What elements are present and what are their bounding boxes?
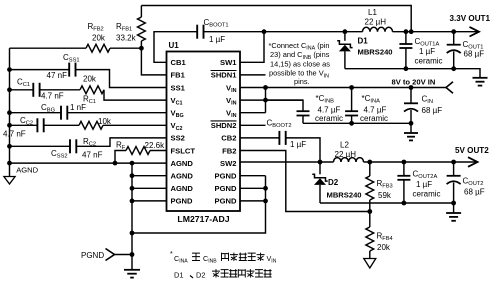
pin label FB2 right 8 — [222, 146, 236, 155]
terminal 5V OUT2 — [454, 157, 478, 167]
pin label SHDN1 right 2 — [211, 71, 238, 80]
svg-text:22.6k: 22.6k — [145, 141, 166, 150]
node agnd2 — [130, 173, 135, 178]
node cout1-top — [451, 29, 456, 34]
capacitor COUT1A — [399, 32, 412, 69]
svg-text:PGND: PGND — [215, 197, 237, 206]
svg-text:22 µH: 22 µH — [335, 150, 357, 159]
capacitor COUT2 — [447, 162, 461, 203]
wire FB1 to pin — [141, 48, 166, 75]
pin label SHDN2 right 6 — [211, 121, 237, 130]
label CBG — [41, 103, 55, 114]
svg-text:14,15) as close as: 14,15) as close as — [270, 59, 330, 68]
svg-text:1 µF: 1 µF — [290, 140, 306, 149]
wire PGND pin left — [132, 200, 167, 202]
label RFB2 — [88, 22, 104, 33]
pin label SS2 left 7 — [171, 134, 185, 143]
svg-text:pins.: pins. — [294, 77, 310, 86]
svg-text:SW2: SW2 — [220, 159, 236, 168]
svg-text:CB2: CB2 — [221, 134, 236, 143]
label AGND — [16, 165, 38, 174]
wire VIN rail — [265, 88, 267, 113]
wire RC2 to VC2 — [103, 124, 167, 126]
node CBG-rail — [7, 110, 12, 115]
wire CSS2 row — [10, 145, 71, 147]
wire CB2 stub — [240, 137, 279, 139]
wire SW1 row — [264, 31, 363, 33]
capacitor CINA — [345, 88, 358, 124]
inductor L1 — [363, 27, 393, 31]
wire SHDN2 stub — [240, 124, 266, 126]
wire CSS1 to SS1 — [76, 70, 167, 88]
wire SW2 row — [240, 161, 334, 163]
pin label VC1 left 4 — [171, 96, 183, 107]
svg-text:20k: 20k — [92, 34, 106, 43]
svg-text:SW1: SW1 — [220, 58, 237, 67]
svg-text:FB2: FB2 — [222, 146, 236, 155]
svg-text:SS2: SS2 — [171, 134, 185, 143]
pin label PGND right 12 — [215, 197, 237, 206]
label COUT2A — [413, 170, 438, 181]
pin label FSLCT left 8 — [171, 146, 196, 155]
label CC1 — [17, 78, 30, 89]
svg-text:ceramic: ceramic — [413, 190, 441, 199]
node pgnd-term — [130, 252, 135, 257]
diode D1 — [337, 32, 352, 69]
ground AGND symbol — [4, 163, 15, 184]
capacitor CINB — [266, 100, 310, 123]
svg-text:LM2717-ADJ: LM2717-ADJ — [177, 214, 229, 224]
value 47 nF — [47, 71, 68, 80]
svg-text:MBRS240: MBRS240 — [358, 48, 393, 57]
node agnd3 — [130, 186, 135, 191]
ground ch2 symbol — [446, 203, 461, 221]
value 68 uF cin — [422, 106, 443, 115]
inductor L2 — [334, 158, 364, 162]
svg-text:33.2k: 33.2k — [116, 34, 137, 43]
wire PGND1 rail — [345, 69, 480, 78]
label RC1 — [83, 95, 96, 106]
svg-text:20k: 20k — [377, 243, 391, 252]
label CBOOT1 — [204, 18, 229, 29]
value 1 nF — [70, 103, 86, 112]
label ceramic cout2a — [413, 190, 441, 199]
node FB1 junction — [139, 46, 144, 51]
capacitor CBOOT1 — [197, 25, 203, 39]
svg-text:D1: D1 — [358, 37, 369, 46]
node rfb3-top — [367, 160, 372, 165]
capacitor CIN — [404, 88, 418, 124]
svg-text:68 µF: 68 µF — [464, 50, 485, 59]
label PGND — [81, 251, 104, 260]
svg-text:PGND: PGND — [215, 172, 237, 181]
label 8V to 20V IN — [392, 77, 436, 86]
value 1 uF cout2a — [416, 180, 432, 189]
label CSS2 — [51, 149, 68, 160]
node cout1a-gnd — [404, 66, 409, 71]
node cout1-gnd — [451, 66, 456, 71]
wire input cap rail — [303, 122, 411, 124]
resistor RFB3 — [366, 162, 374, 212]
label CC2 — [20, 116, 33, 127]
terminal 8V-20V IN — [446, 82, 453, 94]
wire CC1 row — [10, 89, 34, 91]
wire CBG row — [10, 112, 62, 114]
label MBRS240 d2 — [327, 191, 362, 200]
wire CSS2 to SS2 — [76, 138, 166, 146]
op-amp U1 LM2717-ADJ body — [167, 52, 241, 212]
label ceramic cout1a — [415, 57, 443, 66]
label COUT1 — [463, 40, 484, 51]
pin label FB1 left 2 — [171, 71, 186, 80]
node pgnd-l — [130, 199, 135, 204]
node cin-gnd — [409, 121, 414, 126]
node cout2-gnd — [451, 201, 456, 206]
label ceramic cina — [360, 114, 388, 123]
pin label SS1 left 3 — [171, 83, 186, 92]
label RFB3 — [377, 179, 393, 190]
node fb2-junction — [367, 209, 372, 214]
wire PGND pins right — [240, 176, 266, 201]
wire PGND2 rail — [320, 202, 454, 204]
svg-text:47 nF: 47 nF — [82, 151, 103, 160]
pin label AGND left 10 — [171, 172, 194, 181]
resistor RC1 — [80, 86, 104, 94]
label CINB — [316, 94, 335, 105]
ground RFB4 symbol — [364, 259, 376, 269]
value 4.7 uF cina — [364, 106, 387, 115]
label CSS1 — [63, 53, 80, 64]
svg-text:FSLCT: FSLCT — [171, 146, 196, 155]
svg-text:*: * — [170, 251, 173, 258]
value 47 nF css2 — [82, 151, 103, 160]
value 22 uH l2 — [335, 150, 357, 159]
node cin-top — [409, 85, 414, 90]
node cina-top — [349, 85, 354, 90]
svg-text:L2: L2 — [340, 141, 349, 150]
svg-text:20k: 20k — [83, 75, 97, 84]
pin label VIN right 3 — [226, 83, 237, 94]
wire CSS1 row — [10, 69, 70, 71]
pin label PGND left 12 — [171, 197, 193, 206]
wire RF to FSLCT — [150, 150, 167, 152]
label D1 — [358, 37, 369, 46]
svg-text:L1: L1 — [368, 8, 377, 17]
value 1 uF cboot2 — [290, 140, 306, 149]
wire VIN pin2 — [240, 99, 303, 101]
capacitor CSS1 — [69, 63, 75, 77]
wire VIN row — [240, 87, 446, 89]
svg-text:D2: D2 — [328, 178, 339, 187]
svg-text:ceramic: ceramic — [415, 57, 443, 66]
wire CB1 loop — [154, 32, 197, 63]
node cout2a-top — [402, 160, 407, 165]
value 4.7 nF cc2 — [3, 130, 26, 139]
svg-text:D1: D1 — [174, 271, 183, 280]
wire AGND rail — [9, 48, 11, 163]
label D2 — [328, 178, 339, 187]
capacitor CBG — [61, 106, 67, 120]
label RC2 — [83, 137, 96, 148]
node cout2-top — [451, 160, 456, 165]
wire CBOOT1 to SW1 node — [204, 31, 265, 33]
node D1 — [343, 29, 348, 34]
terminal PGND arrow — [106, 249, 133, 261]
svg-text:PGND: PGND — [171, 197, 193, 206]
wire CC2-RC2 — [44, 124, 79, 126]
note chinese line2 — [174, 269, 272, 279]
label U1 — [169, 41, 180, 50]
svg-text:1 nF: 1 nF — [70, 103, 86, 112]
pin label CB1 left 1 — [171, 58, 187, 67]
diode D2 — [312, 162, 327, 203]
capacitor COUT1 — [447, 32, 461, 69]
svg-text:59k: 59k — [378, 191, 392, 200]
svg-text:FB1: FB1 — [171, 71, 186, 80]
svg-text:AGND: AGND — [171, 172, 194, 181]
label CBOOT2 — [267, 119, 292, 130]
node cina-gnd — [349, 121, 354, 126]
svg-text:AGND: AGND — [171, 184, 194, 193]
wire FB2 drop — [240, 151, 370, 212]
node CC2-rail — [7, 123, 12, 128]
pin label PGND right 11 — [215, 184, 237, 193]
node pgr1 — [263, 186, 268, 191]
wire RF left lead — [115, 151, 126, 164]
label COUT2 — [463, 177, 484, 188]
capacitor CSS2 — [70, 139, 76, 153]
svg-text:47 nF: 47 nF — [47, 71, 68, 80]
wire VIN pin3 — [240, 112, 266, 114]
pin label AGND left 9 — [171, 159, 194, 168]
wire SW1 stub — [240, 32, 264, 63]
node vin2 — [263, 98, 268, 103]
svg-text:SS1: SS1 — [171, 83, 186, 92]
ground PGND symbol — [124, 270, 140, 278]
wire AGND2 pin — [132, 175, 167, 177]
wire PGND rail left — [131, 163, 133, 270]
label LM2717-ADJ — [177, 214, 229, 224]
svg-text:AGND: AGND — [16, 165, 38, 174]
svg-text:1 µF: 1 µF — [416, 180, 432, 189]
wire L1 to out — [393, 31, 454, 33]
pin label PGND right 10 — [215, 172, 237, 181]
node L1-out — [404, 29, 409, 34]
resistor RF — [126, 147, 150, 155]
ground CIN symbol — [404, 123, 418, 140]
wire CC2 row — [10, 124, 38, 126]
node AGND-rail — [7, 161, 12, 166]
label L2 — [340, 141, 349, 150]
value 10k — [98, 117, 112, 126]
node vin-rail — [263, 85, 268, 90]
node SW2-D2 — [318, 160, 323, 165]
pin label CB2 right 7 — [221, 134, 236, 143]
value 59k — [378, 191, 392, 200]
note chinese line1 — [170, 251, 277, 265]
svg-text:U1: U1 — [169, 41, 180, 50]
value 1 uF cout1a — [419, 47, 435, 56]
svg-text:AGND: AGND — [171, 159, 194, 168]
label 3.3V OUT1 — [450, 14, 491, 23]
capacitor CC2 — [37, 118, 43, 132]
pin label VIN right 4 — [226, 96, 237, 107]
terminal 3.3V OUT1 — [454, 27, 479, 37]
svg-text:D2: D2 — [196, 271, 205, 280]
label 5V OUT2 — [455, 146, 489, 155]
wire 3.3V feedback top — [141, 6, 411, 32]
label CINA — [362, 94, 381, 105]
wire CC1-RC1 — [40, 89, 80, 91]
svg-text:4.7 nF: 4.7 nF — [3, 130, 26, 139]
svg-text:MBRS240: MBRS240 — [327, 191, 362, 200]
svg-text:22 µH: 22 µH — [365, 18, 387, 27]
wire CBOOT2 to SW2 — [286, 138, 320, 162]
value 68 uF cout1 — [464, 50, 485, 59]
node pgnd-join — [130, 231, 135, 236]
pin label SW1 right 1 — [220, 58, 237, 67]
svg-text:ceramic: ceramic — [360, 114, 388, 123]
node RF-AGND — [113, 161, 118, 166]
label COUT1A — [415, 37, 440, 48]
node cout2a-gnd — [402, 201, 407, 206]
note connect CINA/CINB — [269, 41, 331, 86]
wire CBG to VBG — [67, 112, 166, 114]
node SW1-CBOOT1 — [262, 29, 267, 34]
capacitor CBOOT2 — [279, 131, 285, 145]
resistor RFB1 — [138, 6, 146, 49]
value 33.2k — [116, 34, 137, 43]
label MBRS240 d1 — [358, 48, 393, 57]
capacitor COUT2A — [397, 162, 410, 203]
value 4.7 nF cc1 — [41, 92, 64, 101]
svg-text:PGND: PGND — [81, 251, 104, 260]
svg-text:8V to 20V IN: 8V to 20V IN — [392, 77, 436, 86]
capacitor CC1 — [33, 83, 39, 97]
wire RC1 to VC1 — [104, 90, 167, 100]
wire SHDN1 stub — [240, 74, 266, 76]
wire AGND3 pin — [132, 187, 167, 189]
node CSS2-rail — [7, 144, 12, 149]
svg-text:68 µF: 68 µF — [422, 106, 443, 115]
resistor RC2 — [79, 121, 103, 129]
resistor RFB4 — [366, 212, 374, 259]
pin label VIN right 5 — [226, 109, 237, 120]
value 20k — [92, 34, 106, 43]
resistor RFB2 — [10, 44, 142, 52]
value 4.7 uF cinb — [318, 106, 341, 115]
svg-text:ceramic: ceramic — [315, 114, 343, 123]
svg-text:SHDN1: SHDN1 — [211, 71, 238, 80]
wire L2 to out2 — [364, 161, 454, 163]
svg-text:68 µF: 68 µF — [464, 188, 485, 197]
wire AGND row — [10, 162, 167, 164]
svg-text:3.3V OUT1: 3.3V OUT1 — [450, 14, 491, 23]
ground ch1 — [473, 78, 488, 86]
pin label VBG left 5 — [171, 109, 184, 120]
pin label VC2 left 6 — [171, 121, 183, 132]
node CSS1-rail — [7, 67, 12, 72]
value 20k rc1 — [83, 75, 97, 84]
pin label SW2 right 9 — [220, 159, 236, 168]
svg-text:SHDN2: SHDN2 — [211, 121, 237, 130]
svg-text:4.7 nF: 4.7 nF — [41, 92, 64, 101]
svg-text:CB1: CB1 — [171, 58, 187, 67]
value 22.6k — [145, 141, 166, 150]
node fb-join — [409, 29, 414, 34]
value 68 uF cout2 — [464, 188, 485, 197]
node pgr2 — [263, 199, 268, 204]
label RFB1 — [116, 22, 132, 33]
svg-text:1 µF: 1 µF — [419, 47, 435, 56]
svg-text:1 µF: 1 µF — [209, 35, 225, 44]
label ceramic cinb — [315, 114, 343, 123]
svg-text:PGND: PGND — [215, 184, 237, 193]
value 20k rfb4 — [377, 243, 391, 252]
node CC1-rail — [7, 87, 12, 92]
value 22 uH l1 — [365, 18, 387, 27]
value 1 uF cboot1 — [209, 35, 225, 44]
svg-text:5V OUT2: 5V OUT2 — [455, 146, 489, 155]
pin label AGND left 11 — [171, 184, 194, 193]
label CIN — [422, 95, 433, 106]
wire PGND rail right — [132, 176, 266, 233]
node rail-AGND — [130, 161, 135, 166]
label RF — [116, 141, 126, 152]
label RFB4 — [377, 232, 393, 243]
label L1 — [368, 8, 377, 17]
